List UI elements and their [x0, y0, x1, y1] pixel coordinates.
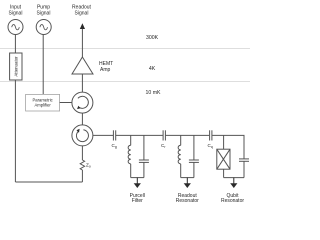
svg-text:Input: Input [10, 4, 22, 10]
attenuator box [10, 53, 22, 80]
svg-text:Signal: Signal [9, 11, 23, 17]
svg-text:Pump: Pump [37, 4, 50, 10]
wire: HEMT to circulator 1 [81, 74, 83, 92]
wire: feedline Cg to Cr with Purcell taps [116, 134, 163, 136]
capacitor Cr (series coupling) [161, 130, 166, 149]
inductor L (readout) [178, 145, 181, 164]
Purcell capacitor branch wire upper [143, 135, 145, 160]
svg-text:Resonator: Resonator [221, 198, 244, 204]
readout output arrow [80, 23, 85, 57]
label Readout Signal [72, 4, 92, 16]
readout resonator: inductor branch wire [180, 135, 182, 145]
ground (Purcell) [134, 178, 141, 188]
wire: feedline Cr to Cq with readout taps [166, 134, 210, 136]
capacitor Cq (series coupling) [208, 130, 213, 149]
capacitor C (qubit shunt) [239, 159, 249, 161]
wire: resistor to circulator 2 [81, 146, 83, 160]
svg-text:Attenuator: Attenuator [14, 56, 19, 77]
wire: junction to bottom junction [223, 169, 225, 177]
svg-text:Amp: Amp [100, 67, 111, 73]
wire: feedline Cq to right corner [212, 135, 244, 158]
Purcell filter: inductor branch wire [130, 135, 132, 145]
svg-text:HEMT: HEMT [99, 61, 113, 67]
wire: Purcell bottom junction [131, 177, 144, 179]
wire: Purcell cap to bottom junction [143, 162, 145, 177]
wire: inductor to bottom junction (readout) [180, 164, 182, 178]
wire: pump generator to parametric amplifier [42, 35, 44, 95]
capacitor C (readout shunt) [189, 160, 199, 162]
wire: up to resistor Z0 [81, 170, 83, 182]
circulator 2 [72, 125, 93, 146]
wire: readout cap to bottom junction [193, 162, 195, 177]
temperature stage boundary line 4K/10mK [0, 81, 250, 83]
wire: qubit junction branch upper [223, 135, 225, 149]
ground (readout) [184, 178, 191, 188]
wire: readout bottom junction [181, 177, 194, 179]
Josephson junction (qubit, crossed box) [217, 149, 230, 169]
wire: circulator 1 to circulator 2 [81, 113, 83, 125]
inductor L (Purcell) [128, 145, 131, 164]
signal generator: pump [36, 20, 51, 35]
label Purcell Filter [130, 193, 145, 204]
svg-text:Signal: Signal [75, 11, 89, 17]
label Input Signal [9, 4, 23, 16]
ground (qubit) [230, 178, 237, 188]
svg-text:Readout: Readout [72, 4, 92, 10]
circulator 1 [72, 92, 93, 113]
svg-text:Amplifier: Amplifier [34, 102, 51, 107]
wire: circulator 2 to capacitor Cg [93, 134, 113, 136]
parametric amplifier box [26, 94, 60, 111]
temperature stage boundary line 300K/4K [0, 48, 250, 50]
HEMT amplifier U-HEMT [72, 57, 113, 74]
wire: qubit bottom junction [224, 177, 244, 179]
signal generator: input [8, 20, 23, 35]
wire: attenuator down left side [14, 80, 16, 182]
svg-text:300K: 300K [146, 35, 159, 41]
label Readout Resonator [176, 193, 199, 204]
capacitor C (Purcell shunt) [139, 160, 149, 162]
readout capacitor branch wire upper [193, 135, 195, 160]
wire: inductor to bottom junction (Purcell) [130, 164, 132, 178]
wire: input generator to attenuator [14, 35, 16, 54]
label Qubit Resonator [221, 193, 244, 204]
wire: bottom horizontal input feed [15, 181, 82, 183]
svg-text:Filter: Filter [132, 198, 143, 204]
label Pump Signal [37, 4, 51, 16]
wire: parametric amplifier to circulator 1 [60, 102, 72, 104]
svg-text:Resonator: Resonator [176, 198, 199, 204]
svg-text:10 mK: 10 mK [146, 90, 162, 96]
capacitor Cg (series coupling) [112, 130, 117, 149]
wire: qubit cap to bottom junction [243, 161, 245, 177]
svg-text:4K: 4K [149, 66, 156, 72]
svg-text:Signal: Signal [37, 11, 51, 17]
resistor Z0 [80, 160, 91, 170]
